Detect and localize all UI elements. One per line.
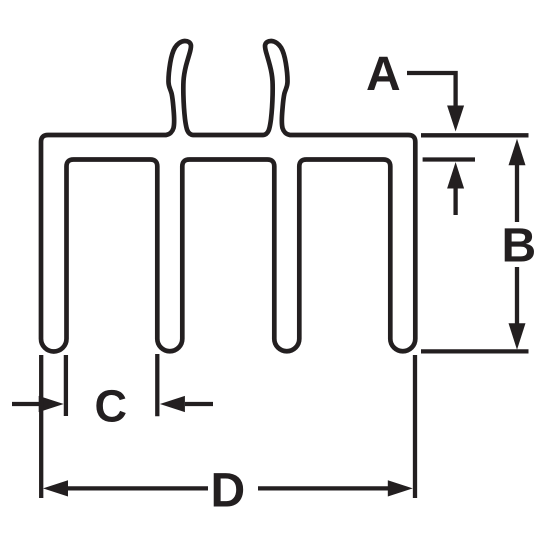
svg-text:C: C (95, 380, 128, 431)
dimension A leader (407, 73, 456, 107)
dimension C right arrowhead (160, 396, 185, 412)
dimension C right tail (185, 402, 213, 406)
dimension D left arrowhead (43, 480, 68, 496)
dimension D line left (68, 486, 209, 490)
dimension B down arrowhead (509, 323, 526, 350)
extension line D right (413, 355, 417, 498)
svg-text:D: D (211, 464, 246, 517)
extension line A bottom (423, 157, 475, 161)
heatsink profile outline (41, 41, 415, 352)
svg-text:B: B (502, 219, 537, 272)
dimension D line right (258, 486, 388, 490)
dimension A up arrow tail (453, 188, 457, 215)
dimension B up arrowhead (509, 139, 526, 166)
extension line C right (155, 354, 159, 416)
extension line bottom (B) (421, 349, 529, 353)
extension line C left (64, 355, 68, 416)
dimension A up arrowhead (447, 162, 464, 189)
svg-text:A: A (366, 48, 401, 101)
dimension A down arrowhead (447, 106, 464, 132)
extension line D left (39, 355, 43, 498)
dimension D right arrowhead (388, 480, 413, 496)
dimension B line lower (515, 267, 519, 325)
dimension C left tail (12, 402, 40, 406)
extension line top (A/B) (421, 133, 529, 137)
dimension C left arrowhead (39, 396, 64, 412)
dimension B line upper (515, 165, 519, 222)
